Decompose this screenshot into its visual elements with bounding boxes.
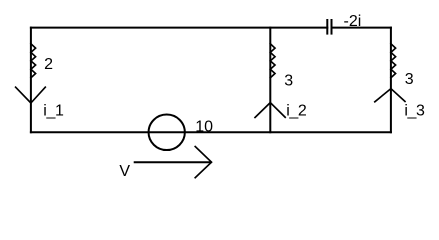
wire right branch [390, 28, 392, 133]
V direction arrow shaft [135, 161, 211, 163]
current arrow i_2 (up) [255, 103, 285, 118]
current arrow i_3 (up) [375, 89, 405, 102]
svg-text:V: V [119, 163, 130, 180]
svg-text:3: 3 [284, 72, 293, 89]
svg-text:i_1: i_1 [43, 103, 64, 120]
V direction arrowhead [195, 147, 211, 178]
svg-text:i_3: i_3 [404, 103, 425, 120]
svg-text:2: 2 [44, 56, 53, 73]
svg-text:3: 3 [405, 71, 414, 88]
wire middle branch [269, 28, 271, 133]
voltage source circle [149, 115, 185, 151]
resistor R1 zigzag [31, 44, 36, 78]
capacitor C1 right plate [331, 20, 333, 34]
wire left branch [30, 28, 32, 133]
resistor R2 zigzag [270, 44, 275, 78]
current arrow i_1 (down) [16, 87, 46, 103]
resistor R3 zigzag [391, 44, 396, 78]
wire bottom [31, 131, 391, 133]
wire top left segment [31, 27, 327, 29]
svg-text:i_2: i_2 [286, 103, 307, 120]
capacitor C1 left plate [326, 20, 328, 34]
wire top right segment [332, 27, 391, 29]
svg-text:10: 10 [195, 118, 213, 135]
svg-text:-2i: -2i [344, 13, 362, 30]
